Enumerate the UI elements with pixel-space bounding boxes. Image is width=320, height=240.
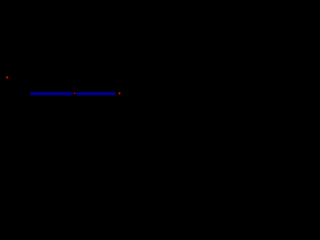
blue LED light bar, right segment [76,92,115,96]
blue LED light bar, left segment [31,92,116,96]
red indicator LED, upper left [5,76,9,80]
red indicator LED, right end of light bar [118,92,122,96]
red indicator LED, middle of light bar [73,92,76,95]
